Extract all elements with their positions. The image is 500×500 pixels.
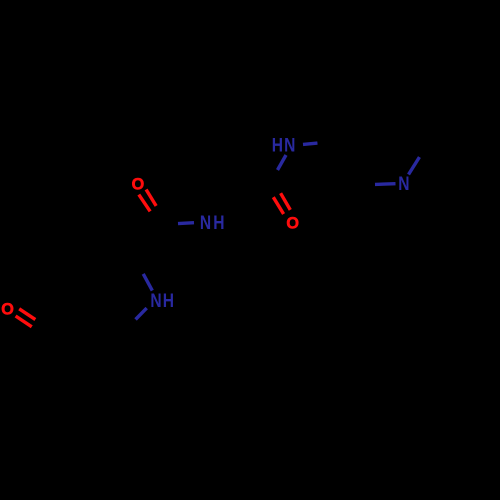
bond N4-C2' nitrogen half	[375, 182, 396, 186]
bond N1-C5 carbon half	[124, 320, 136, 332]
double bond C9=O3, line a carbon half	[271, 178, 280, 194]
double bond O1=C6 aldehyde C=O, line a red half	[19, 309, 35, 320]
svg-text:H: H	[213, 211, 224, 233]
double bond O2=C7, line a red half	[146, 190, 156, 207]
bond N1-C5 nitrogen half	[136, 308, 147, 319]
bond C7-N2 nitrogen half	[178, 221, 194, 225]
wire: ring bond C3-C4	[85, 267, 93, 313]
wire: pyridine ring bond C5'-C6'	[406, 99, 429, 142]
bond N1-C2 nitrogen half	[143, 274, 152, 291]
wire: pyridine ring bond C4'-C5'	[358, 99, 406, 101]
bond N3-C3' carbon half	[318, 142, 334, 143]
double bond O2=C7, line a carbon half	[156, 206, 167, 223]
svg-text:N: N	[200, 211, 211, 233]
wire: bond C8-C9, CH2 to second carbonyl	[253, 180, 268, 232]
double bond O2=C7, line b carbon half	[150, 211, 160, 227]
svg-text:N: N	[398, 172, 409, 194]
bond N4-C6' carbon half	[420, 143, 430, 158]
bond N4-C2' carbon half	[356, 183, 375, 187]
wire: ring bond C4-C5	[85, 313, 124, 332]
double bond O1=C6, line b carbon half	[32, 327, 48, 338]
double bond O1=C6, line a carbon half	[35, 320, 51, 331]
svg-text:O: O	[1, 301, 14, 319]
bond N1-C2 carbon half	[135, 258, 143, 274]
bond N2-C8 nitrogen half, NH to glycyl CH2	[224, 226, 239, 229]
double bond C9=O3, line b carbon half	[264, 182, 273, 198]
svg-text:H: H	[163, 289, 174, 311]
bond N3-C3' nitrogen half, HN to pyridine C3'	[303, 143, 318, 144]
double bond C9=O3, line a red half	[281, 193, 291, 210]
bond C7-N2 carbon half, amide C to central NH	[164, 224, 178, 226]
svg-text:H: H	[272, 134, 283, 156]
wire: bond C6-C4, formyl to pyrrolidine ring carbon	[50, 313, 85, 334]
bond C9-N3 carbon half, carbonyl to anilide HN	[268, 170, 278, 180]
svg-text:N: N	[150, 289, 161, 311]
wire: pyridine ring bond C3'-C4'	[333, 101, 358, 142]
bond C9-N3 nitrogen half	[278, 155, 287, 170]
double bond O2=C7, line b red half	[139, 195, 150, 212]
svg-text:O: O	[132, 175, 145, 193]
wire: bond C2-C7, ring to amide carbonyl	[135, 225, 164, 257]
bond N4-C6' nitrogen half	[409, 157, 420, 175]
svg-text:N: N	[284, 134, 295, 156]
wire: ring bond C2-C3	[93, 258, 135, 268]
bond N2-C8 carbon half	[239, 229, 253, 232]
wire: pyridine ring bond C2'-C3'	[333, 142, 356, 185]
svg-text:O: O	[286, 214, 299, 232]
double bond O1=C6, line b red half	[16, 316, 32, 327]
double bond C9=O3, line b red half	[273, 197, 283, 214]
